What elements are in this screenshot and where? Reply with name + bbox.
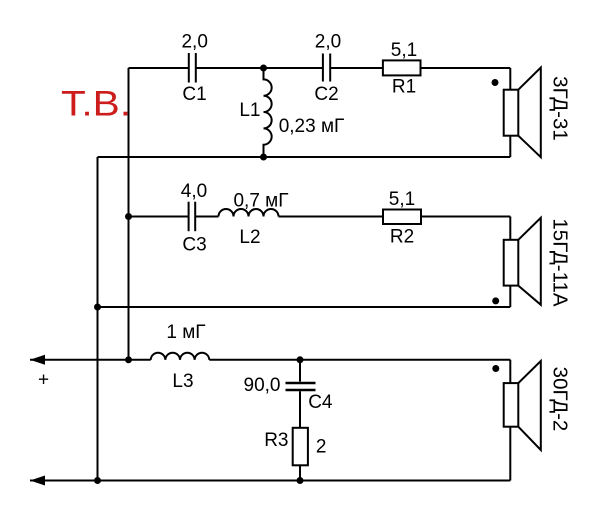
svg-text:R2: R2 (390, 227, 414, 248)
svg-text:L3: L3 (172, 371, 193, 392)
svg-text:2: 2 (316, 437, 327, 458)
svg-text:0,7 мГ: 0,7 мГ (233, 190, 288, 211)
svg-text:L2: L2 (239, 227, 260, 248)
svg-text:C3: C3 (182, 235, 206, 256)
svg-text:5,1: 5,1 (391, 40, 417, 61)
svg-text:3ГД-31: 3ГД-31 (549, 76, 572, 141)
svg-text:1 мГ: 1 мГ (166, 322, 205, 343)
svg-text:L1: L1 (239, 100, 260, 121)
svg-text:C1: C1 (182, 84, 206, 105)
svg-text:30ГД-2: 30ГД-2 (549, 367, 572, 432)
svg-text:0,23 мГ: 0,23 мГ (279, 116, 345, 137)
svg-text:+: + (38, 370, 49, 391)
svg-text:5,1: 5,1 (389, 189, 415, 210)
svg-text:2,0: 2,0 (181, 32, 207, 53)
svg-text:C2: C2 (314, 84, 338, 105)
svg-text:4,0: 4,0 (181, 181, 207, 202)
svg-text:Т.В.: Т.В. (61, 84, 131, 123)
svg-text:R3: R3 (264, 430, 288, 451)
svg-text:2,0: 2,0 (315, 32, 341, 53)
svg-text:15ГД-11А: 15ГД-11А (549, 218, 572, 307)
svg-text:90,0: 90,0 (244, 375, 281, 396)
svg-text:C4: C4 (308, 392, 333, 413)
svg-text:R1: R1 (392, 77, 416, 98)
